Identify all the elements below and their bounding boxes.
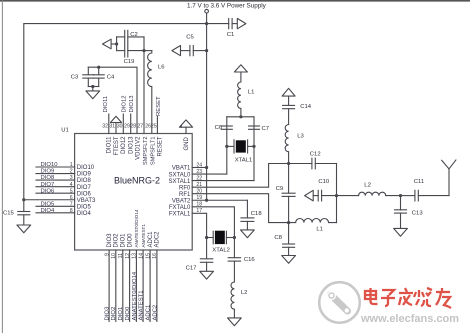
svg-text:DIO3: DIO3	[105, 306, 111, 320]
svg-text:5: 5	[70, 188, 73, 194]
svg-text:DIO13: DIO13	[129, 95, 135, 113]
wire pin23 SXTAL0	[192, 173, 227, 175]
svg-text:L2: L2	[241, 290, 248, 296]
capacitor C15	[23, 200, 25, 212]
wire node A to C12	[289, 163, 312, 165]
svg-text:DIO2: DIO2	[114, 233, 120, 248]
wire pin10 DIO2	[115, 250, 117, 321]
svg-text:RESET: RESET	[156, 96, 162, 116]
capacitor C7	[249, 125, 260, 127]
svg-text:20: 20	[196, 189, 202, 195]
wire pin17 FXTAL1	[192, 213, 206, 237]
svg-text:DIO11: DIO11	[103, 96, 109, 113]
capacitor C12	[311, 158, 313, 169]
svg-text:19: 19	[196, 195, 202, 201]
svg-text:6: 6	[70, 195, 73, 201]
ground below L2	[228, 318, 242, 326]
wire pin30 stub DIO12	[122, 114, 124, 134]
capacitor C1	[228, 19, 230, 29]
svg-text:DIO3: DIO3	[107, 233, 113, 248]
svg-text:C2: C2	[130, 32, 138, 38]
svg-text:www.elecfans.com: www.elecfans.com	[360, 313, 459, 325]
svg-text:FXTAL0: FXTAL0	[169, 205, 191, 211]
svg-text:15: 15	[145, 253, 151, 259]
svg-text:DIO6: DIO6	[77, 191, 92, 197]
svg-text:DIO11: DIO11	[107, 136, 113, 154]
svg-text:1: 1	[70, 162, 73, 168]
svg-text:C4: C4	[107, 74, 115, 80]
svg-text:28: 28	[130, 124, 136, 130]
capacitor C3	[87, 67, 89, 75]
wire pin8 DIO4	[36, 212, 75, 214]
svg-text:C3: C3	[71, 74, 79, 80]
svg-text:ADC1: ADC1	[146, 305, 152, 321]
capacitor C8	[288, 223, 290, 244]
svg-text:C7: C7	[262, 126, 270, 132]
svg-text:32: 32	[102, 124, 108, 130]
ground above L1 upper	[234, 65, 247, 72]
svg-text:L6: L6	[158, 65, 165, 71]
svg-text:12: 12	[125, 253, 131, 259]
svg-text:DIO9: DIO9	[41, 169, 55, 175]
svg-text:2: 2	[70, 169, 73, 175]
svg-text:ANATEST0/DIO14: ANATEST0/DIO14	[134, 209, 139, 247]
svg-text:VBAT3: VBAT3	[77, 198, 96, 204]
wire pin20 RF1 to node B	[192, 194, 288, 223]
wire C2/C19 left vertical	[116, 37, 118, 51]
wire pin24 VBAT1	[192, 167, 206, 169]
svg-text:C8: C8	[274, 235, 282, 241]
wire pin9 DIO3	[108, 250, 110, 321]
svg-text:10: 10	[111, 253, 117, 259]
wire pin5 DIO6	[36, 192, 75, 194]
node C5 power	[205, 49, 208, 52]
wire pin4 DIO7	[36, 186, 75, 188]
svg-text:C6: C6	[215, 125, 223, 131]
capacitor C14	[288, 96, 290, 105]
svg-text:17: 17	[196, 208, 202, 214]
svg-text:14: 14	[138, 253, 144, 259]
node C4 top	[97, 66, 100, 69]
svg-text:L2: L2	[364, 183, 371, 189]
svg-text:3: 3	[70, 175, 73, 181]
svg-text:C11: C11	[414, 179, 424, 185]
ground below C8	[282, 256, 296, 264]
svg-text:SMPSFLT2: SMPSFLT2	[143, 137, 149, 166]
capacitor C17	[206, 238, 208, 259]
svg-text:7: 7	[70, 201, 73, 207]
inductor L2	[359, 192, 386, 195]
wire right vertical C12-C10-L1	[336, 164, 338, 223]
svg-text:VDD1V2: VDD1V2	[136, 136, 142, 160]
svg-text:RF1: RF1	[179, 192, 191, 198]
svg-text:C15: C15	[3, 211, 15, 217]
node pin19 power	[205, 199, 208, 202]
wire to L6	[144, 50, 152, 52]
svg-text:L1: L1	[248, 90, 255, 96]
svg-text:16: 16	[152, 253, 158, 259]
svg-text:DIO9: DIO9	[77, 172, 92, 178]
svg-text:FTEST: FTEST	[114, 136, 120, 155]
more groups appended below	[24, 65, 456, 326]
svg-text:DIO10: DIO10	[77, 165, 95, 171]
wire C3/C4 bottom rail	[88, 86, 98, 88]
wire L2 to node C	[386, 195, 401, 197]
capacitor C11	[401, 195, 415, 197]
ground below C15	[17, 225, 31, 233]
watermark logo circle	[319, 282, 360, 323]
node VBAT3 power	[22, 198, 25, 201]
svg-text:U1: U1	[61, 128, 69, 134]
svg-text:GND: GND	[184, 137, 190, 151]
svg-text:ADC1: ADC1	[148, 231, 154, 248]
ground below C3/C4	[86, 91, 100, 99]
svg-text:DIO2: DIO2	[111, 307, 117, 321]
crystal XTAL1	[233, 140, 235, 153]
svg-text:DIO4: DIO4	[77, 211, 92, 217]
svg-text:4: 4	[70, 182, 73, 188]
node C3/C4 bottom	[91, 85, 94, 88]
wire pin19 VBAT2 to C18	[192, 199, 247, 201]
svg-text:DIO5: DIO5	[77, 204, 92, 210]
svg-text:C17: C17	[186, 265, 197, 271]
svg-text:13: 13	[132, 253, 138, 259]
wire pin25 stub RESET	[156, 117, 158, 134]
wire pin2 DIO9	[36, 173, 75, 175]
svg-text:22: 22	[196, 175, 202, 181]
wire pin7 DIO5	[36, 205, 75, 207]
capacitor C5	[189, 46, 191, 56]
watermark red char you	[436, 288, 451, 308]
ground left of C10	[305, 190, 314, 201]
svg-text:23: 23	[196, 169, 202, 175]
inductor L2 lower	[231, 282, 234, 318]
wire pin29 stub DIO13	[130, 114, 132, 134]
ground below C13	[394, 228, 408, 236]
ground left of C5	[172, 46, 181, 56]
wire C3/C4 top rail to pin28	[88, 67, 137, 133]
ground below C18	[241, 230, 255, 238]
ground above C14	[282, 88, 295, 96]
wire power rail	[24, 24, 229, 200]
svg-text:VBAT1: VBAT1	[172, 166, 191, 172]
power supply terminal	[205, 9, 209, 13]
antenna	[448, 169, 450, 196]
inductor L1 lower	[289, 219, 337, 223]
wire pin22 SXTAL1	[192, 180, 254, 182]
node rail junction	[205, 22, 208, 25]
wire pin14 ANATEST1	[142, 250, 144, 321]
svg-text:DIO10: DIO10	[41, 162, 59, 168]
watermark red char zi	[381, 290, 395, 306]
svg-text:29: 29	[124, 124, 130, 130]
wire gnd stem to C2/C19	[111, 43, 117, 45]
svg-text:18: 18	[196, 202, 202, 208]
wire pin31 stub	[115, 123, 117, 134]
node C	[399, 194, 402, 197]
svg-text:DIO8: DIO8	[41, 175, 55, 181]
svg-text:DIO13: DIO13	[128, 136, 134, 154]
svg-text:27: 27	[137, 124, 143, 130]
watermark red char fa	[399, 288, 413, 305]
svg-text:4: 4	[180, 124, 183, 129]
node pin24 power	[205, 166, 208, 169]
svg-text:DIO7: DIO7	[41, 182, 55, 188]
wire pin12 DIO0	[129, 250, 131, 321]
svg-text:9: 9	[104, 253, 110, 256]
svg-text:DIO5: DIO5	[41, 201, 55, 207]
svg-text:DIO4: DIO4	[41, 208, 55, 214]
svg-text:C14: C14	[300, 104, 312, 110]
wire terminal to rail	[206, 13, 208, 24]
svg-text:ANATEST1: ANATEST1	[139, 290, 145, 320]
ground left of C2/C19	[103, 39, 112, 49]
ground below C17	[200, 271, 214, 279]
capacitor C18	[246, 200, 248, 218]
capacitor C13	[400, 196, 402, 210]
svg-text:L3: L3	[297, 134, 304, 140]
capacitor C2/C19 shared plates	[124, 30, 126, 57]
capacitor C4	[98, 67, 100, 75]
wire pin11 DIO1	[122, 250, 124, 321]
capacitor C10	[313, 195, 318, 197]
svg-text:SMPSFLT1: SMPSFLT1	[150, 137, 156, 166]
svg-text:C18: C18	[251, 211, 263, 217]
capacitor C6	[221, 125, 232, 127]
wire pin18 FXTAL0	[192, 207, 234, 238]
svg-text:C5: C5	[186, 35, 194, 41]
svg-text:XTAL1: XTAL1	[235, 157, 253, 163]
watermark red char dian	[365, 288, 378, 304]
svg-text:DIO1: DIO1	[121, 233, 127, 248]
svg-text:L1: L1	[316, 227, 323, 233]
wire pin3 DIO8	[36, 179, 75, 181]
svg-text:SXTAL0: SXTAL0	[168, 172, 191, 178]
svg-text:C16: C16	[244, 257, 256, 263]
svg-text:ANATEST1: ANATEST1	[141, 224, 146, 248]
wire pin21 RF0 to node A	[192, 164, 288, 188]
wire XTAL1 top rail	[227, 116, 254, 118]
node C10 right	[335, 194, 338, 197]
wire pin6 VBAT3	[24, 199, 75, 201]
wire C2/C19 right vertical to pin27	[143, 37, 145, 134]
svg-text:RESET: RESET	[158, 136, 164, 156]
svg-text:C1: C1	[227, 32, 235, 38]
svg-text:1.7 V to 3.6 V Power Supply: 1.7 V to 3.6 V Power Supply	[187, 3, 267, 10]
svg-text:ANATEST0/DIO14: ANATEST0/DIO14	[132, 271, 138, 320]
svg-text:24: 24	[196, 162, 202, 168]
svg-text:DIO0: DIO0	[125, 306, 131, 320]
svg-text:FXTAL1: FXTAL1	[169, 212, 191, 218]
wire pin13 ANATEST0	[135, 250, 137, 321]
node C2/C19 left	[115, 42, 118, 45]
wire C2 top rail	[117, 36, 125, 38]
svg-text:VBAT2: VBAT2	[172, 198, 191, 204]
svg-text:DIO8: DIO8	[77, 178, 92, 184]
wire pin16 ADC2	[156, 250, 158, 321]
svg-text:ADC2: ADC2	[152, 305, 158, 321]
svg-text:DIO6: DIO6	[41, 188, 55, 194]
crystal XTAL2	[207, 237, 214, 239]
svg-text:C12: C12	[310, 151, 321, 157]
frame top border	[0, 0, 470, 2]
wire pin32 stub DIO11	[108, 114, 110, 134]
watermark red char shao	[414, 288, 432, 306]
svg-text:C19: C19	[124, 59, 135, 65]
wire XTAL1 left vertical	[226, 117, 228, 174]
ground on FTEST pin31	[111, 116, 122, 122]
svg-text:DIO12: DIO12	[122, 95, 128, 112]
node L1 XTAL1	[239, 115, 242, 118]
inductor L1 upper	[238, 72, 241, 117]
wire C19 bottom rail	[117, 50, 125, 52]
ground above GND pin	[179, 120, 192, 127]
svg-text:30: 30	[117, 124, 123, 130]
svg-text:21: 21	[196, 182, 202, 188]
inductor L3	[285, 125, 288, 164]
frame left border	[1, 1, 3, 333]
svg-text:31: 31	[109, 124, 115, 130]
svg-text:SXTAL1: SXTAL1	[168, 179, 191, 185]
capacitor C9	[288, 164, 290, 194]
svg-text:C13: C13	[412, 211, 424, 217]
wire to L2	[337, 195, 359, 197]
svg-text:25: 25	[151, 124, 157, 130]
node B	[287, 221, 290, 224]
capacitor C16	[233, 238, 235, 258]
svg-text:BlueNRG-2: BlueNRG-2	[114, 176, 160, 186]
wire GND pin stub	[185, 127, 187, 133]
svg-text:11: 11	[118, 253, 124, 258]
node A	[287, 162, 290, 165]
svg-text:C10: C10	[318, 179, 330, 185]
wire pin15 ADC1	[149, 250, 151, 321]
node C19 right	[142, 49, 145, 52]
svg-text:C9: C9	[276, 186, 284, 192]
svg-text:DIO12: DIO12	[121, 136, 127, 154]
svg-text:DIO1: DIO1	[118, 307, 124, 321]
wire power vertical to VBAT1/VBAT2	[206, 24, 208, 201]
IC U1 BlueNRG-2 body	[75, 134, 193, 251]
svg-text:RF0: RF0	[179, 185, 191, 191]
ground right of C1	[237, 18, 246, 28]
wire to ground	[92, 87, 94, 91]
wire pin1 DIO10	[36, 166, 75, 168]
inductor L6	[148, 51, 152, 134]
svg-text:8: 8	[70, 208, 73, 214]
svg-text:XTAL2: XTAL2	[212, 247, 230, 253]
wire XTAL1 right vertical	[253, 117, 255, 181]
svg-text:DIO7: DIO7	[77, 185, 92, 191]
svg-text:ADC2: ADC2	[155, 231, 161, 248]
svg-text:DIO0: DIO0	[127, 233, 133, 248]
